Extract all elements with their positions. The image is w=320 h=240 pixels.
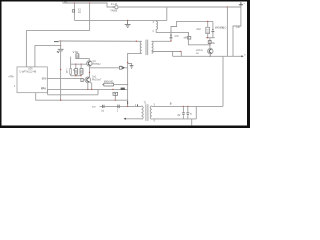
junction x89	[89, 2, 90, 3]
diode D1 dash on wire y41	[54, 41, 59, 43]
base box left of Q2	[81, 78, 83, 81]
svg-text:sw: sw	[78, 11, 81, 14]
pin top right	[239, 2, 243, 5]
vertical x89	[89, 3, 91, 31]
clamp bottom rail	[206, 37, 215, 39]
output verticals	[226, 7, 228, 56]
small box x188	[188, 36, 191, 39]
fuse F1	[112, 6, 115, 8]
choke T2	[140, 40, 153, 56]
svg-text:d M: d M	[174, 35, 178, 38]
vertical x196	[195, 106, 197, 119]
svg-text:C-loPTbCL2-4B: C-loPTbCL2-4B	[19, 70, 36, 73]
svg-text:PHT9U: PHT9U	[93, 63, 101, 66]
ground GND2 offset right	[128, 64, 132, 66]
ground GND1 at x127.6	[127, 20, 128, 21]
svg-text:F1 4A: F1 4A	[111, 3, 118, 6]
diode D8 horizontal	[119, 66, 122, 69]
wire R3 to Q1 collector	[77, 59, 89, 61]
diode D6 snubber	[212, 21, 214, 28]
junction top bus x227	[227, 6, 228, 7]
output wire y56.3	[173, 55, 243, 57]
T1 left-top wire	[100, 105, 142, 107]
resistor R5 vertical	[75, 69, 78, 75]
bottoms	[70, 74, 72, 76]
wire y=29.6 down-left to U2	[26, 31, 89, 67]
branch wire y=67.8 right to diode	[90, 67, 120, 69]
cap C1 on vertical x60.6	[60, 41, 62, 49]
long rail y89.4	[47, 88, 127, 90]
resistor R3 vertical under label	[76, 54, 79, 59]
wire y=41 long to choke	[61, 40, 142, 42]
secondary cap C11	[187, 106, 189, 112]
Q1 emitter down to Q2	[89, 66, 91, 77]
svg-text:dM: dM	[184, 36, 187, 39]
wire L2 bottom to snubber box	[156, 30, 188, 39]
pin wire BR y78.6 to Q2 base box	[47, 78, 81, 80]
transistor Q1	[87, 61, 92, 66]
wire y=94.8	[48, 94, 98, 96]
dark mark on vertical below y100	[127, 101, 129, 104]
wire fuse to top-right	[118, 5, 241, 7]
dark component on rail right	[121, 88, 125, 90]
svg-text:2A2: 2A2	[196, 28, 201, 31]
stub to bottom border	[191, 119, 193, 126]
pin arrow right	[241, 55, 243, 57]
transistor Q3	[208, 48, 213, 53]
main vertical x127.6	[128, 53, 142, 106]
svg-text:BR8: BR8	[42, 78, 47, 81]
svg-text:(M: (M	[178, 114, 181, 117]
drop x47.6 to wire 94.8	[47, 89, 49, 94]
choke right-bottom	[152, 51, 182, 53]
test point above wire y100	[114, 95, 116, 100]
transistor Q2	[85, 77, 91, 83]
T1 right-bottom rail	[152, 118, 196, 120]
svg-text:B: B	[170, 102, 172, 106]
bus wire y=20.4	[74, 19, 166, 21]
zener D5	[170, 30, 172, 35]
svg-text:PhJOm7: PhJOm7	[92, 79, 102, 82]
wire AC top y=3	[63, 3, 112, 7]
T1 left-bottom wire + arrow	[124, 118, 142, 120]
Q2 collector down-right	[90, 82, 92, 90]
IC box U2	[17, 67, 47, 93]
svg-text:H: H	[190, 113, 192, 116]
svg-text:sLO: sLO	[222, 26, 227, 29]
svg-text:(+R: (+R	[236, 26, 240, 29]
junction x74	[74, 2, 75, 3]
svg-text:FP0: FP0	[41, 88, 46, 91]
resistor R6 vertical	[80, 69, 83, 75]
resistor pair loop	[70, 57, 72, 69]
choke right-top to clamp step	[152, 21, 213, 41]
return vertical x223	[222, 56, 224, 106]
vertical x166.8 from top bus	[166, 7, 168, 20]
svg-text:R: R	[66, 71, 68, 74]
resistor R9 snubber	[206, 27, 210, 33]
wire corner x35 y45.6 to cap rail	[35, 46, 61, 67]
svg-text:+FPn: +FPn	[8, 76, 14, 79]
Q2 emitter down	[87, 83, 89, 90]
secondary cap C10	[182, 106, 184, 112]
svg-text:(x): (x)	[101, 109, 104, 112]
svg-text:TA680: TA680	[110, 10, 118, 13]
border frame	[0, 0, 250, 128]
U2 bottom pin down to wire y100	[36, 93, 128, 101]
svg-text:V Ox: V Ox	[73, 50, 79, 54]
T1 right-top wire	[152, 105, 223, 107]
switch S1 on vertical x74	[73, 3, 75, 20]
resistor R4 thin vertical	[70, 69, 72, 75]
